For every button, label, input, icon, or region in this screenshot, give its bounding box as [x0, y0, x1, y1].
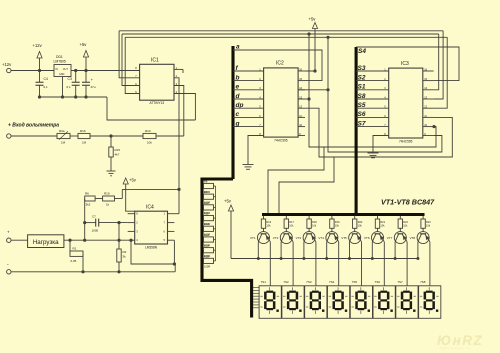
svg-text:LM358N: LM358N [145, 246, 158, 250]
svg-text:1000: 1000 [92, 229, 99, 233]
ground R15 [107, 170, 116, 172]
bus segment corner thick [202, 179, 252, 318]
wire DD1 ground lead [62, 77, 64, 98]
svg-text:VT2: VT2 [273, 236, 279, 240]
wire VT3 collector to display [315, 242, 317, 286]
resistor R18 10k base [308, 216, 310, 219]
wire clock drop long vertical to IC3 nest [307, 32, 310, 35]
wire VT6 collector to display [383, 242, 385, 286]
svg-text:+5v: +5v [309, 17, 317, 22]
svg-text:0,05: 0,05 [71, 259, 77, 263]
svg-text:IC2: IC2 [276, 61, 284, 67]
wire load output line to IC4 [64, 239, 128, 241]
wire VT8 collector to display [429, 242, 431, 286]
svg-text:7S6: 7S6 [375, 280, 381, 284]
display 7S8 seven-segment [419, 286, 441, 319]
svg-text:R21: R21 [381, 221, 386, 224]
resistor R13 100R segment [204, 237, 214, 242]
svg-text:3k3: 3k3 [86, 203, 91, 207]
power +12v symbol [39, 58, 41, 71]
resistor R14 100R segment [204, 248, 214, 253]
svg-text:R3a: R3a [59, 129, 65, 133]
svg-text:1M: 1M [82, 141, 87, 145]
wire segment b to IC2 [233, 80, 264, 82]
wire bottom line riser [174, 264, 176, 272]
resistor R9 100R segment [204, 194, 214, 199]
svg-text:VT4: VT4 [318, 236, 324, 240]
svg-text:47u: 47u [91, 85, 96, 89]
resistor R6 3k3 feedback [85, 196, 95, 201]
transistor VT3 [303, 232, 315, 244]
svg-text:dp: dp [236, 102, 244, 109]
resistor R12 100R segment [204, 226, 214, 231]
svg-text:7S5: 7S5 [352, 280, 358, 284]
resistor R20 10k base [354, 216, 356, 219]
svg-text:IC4: IC4 [146, 205, 154, 211]
wire IC1 pin5 to top line 3 [125, 37, 139, 93]
wire op-amp output cross link [177, 188, 180, 191]
svg-text:+12v: +12v [33, 43, 43, 48]
wire IC4 output pin link [174, 213, 179, 215]
wire IC1 pin7 to top line 1 [119, 31, 140, 78]
resistor R19 1k feedback [103, 196, 115, 201]
svg-text:7S8: 7S8 [420, 280, 426, 284]
resistor R23 10k base [422, 216, 424, 219]
wire VT2 emitter to rail [280, 242, 282, 259]
wire feedback line [95, 198, 103, 200]
svg-text:S5: S5 [358, 102, 366, 109]
IC4 pin stubs and numbers [128, 213, 135, 215]
svg-text:4k7: 4k7 [115, 153, 120, 157]
transistor VT6 [372, 232, 384, 244]
shift register IC2 74HC595 box [264, 68, 299, 137]
svg-text:R19: R19 [335, 221, 340, 224]
IC2 right pin stubs [298, 70, 305, 72]
op-amp IC1 ATtiny13 box [140, 64, 174, 100]
resistor R2 3k [118, 223, 120, 249]
resistor R10 10k [143, 133, 156, 138]
svg-text:+ Вход вольтметра: + Вход вольтметра [8, 123, 59, 129]
wire segment ladder right join [215, 186, 217, 261]
wire voltmeter input line [11, 135, 57, 137]
resistor R10 100R segment [204, 205, 214, 210]
display 7S3 seven-segment [305, 286, 327, 319]
svg-text:S4: S4 [358, 48, 366, 55]
svg-text:ATTINY13: ATTINY13 [149, 101, 164, 105]
transistor VT1 [258, 232, 270, 244]
wire bottom common line [11, 271, 175, 273]
wire segment e to IC2 [233, 89, 264, 91]
ground IC2 [243, 164, 254, 166]
wire top line1 down to IC3 pin13 [434, 31, 444, 99]
svg-text:R14: R14 [204, 244, 209, 248]
wire segment dp to IC2 [233, 107, 264, 109]
wire VT6 emitter to rail [371, 242, 373, 259]
svg-text:R19: R19 [104, 192, 110, 196]
svg-text:R6: R6 [85, 192, 89, 196]
resistor R11 100R segment [204, 216, 214, 221]
svg-text:Нагрузка: Нагрузка [33, 239, 59, 246]
shift register IC3 74HC595 box [389, 68, 423, 138]
svg-text:7S3: 7S3 [306, 280, 312, 284]
svg-text:R9: R9 [204, 190, 208, 194]
display 7S2 seven-segment [282, 286, 304, 319]
terminal load plus [7, 238, 11, 242]
wire IC1 pin1 stub [174, 68, 183, 70]
svg-text:R17: R17 [289, 221, 294, 224]
svg-text:R23: R23 [426, 221, 431, 224]
svg-text:e: e [236, 84, 240, 91]
svg-text:S6: S6 [358, 111, 366, 118]
display 7S1 seven-segment [259, 286, 281, 319]
display 7S5 seven-segment [350, 286, 372, 319]
resistor R17 10k base [285, 216, 287, 219]
wire segment d to IC2 [233, 98, 264, 100]
trimmer R3a [57, 133, 70, 138]
wire segment a loop to IC2 pin15 [233, 50, 322, 81]
wire digit S5 to IC3 [356, 107, 389, 109]
capacitor C4 [39, 71, 41, 83]
svg-text:OUT: OUT [63, 68, 69, 71]
svg-text:IC1: IC1 [151, 58, 159, 64]
wire IC4 feedback loop bottom [131, 240, 174, 264]
svg-text:VT6: VT6 [364, 236, 370, 240]
capacitor C7 1000p [85, 222, 96, 224]
wire segment g to IC2 [233, 126, 264, 128]
svg-text:a: a [236, 44, 240, 51]
resistor R15 4k7 [110, 136, 112, 147]
svg-text:1k: 1k [106, 203, 110, 207]
transistor VT4 [326, 232, 338, 244]
svg-text:R16: R16 [267, 221, 272, 224]
svg-text:R12: R12 [204, 222, 209, 226]
svg-text:VT1: VT1 [250, 236, 256, 240]
svg-text:c: c [236, 111, 240, 118]
bus segment lines thick [231, 46, 234, 179]
svg-text:+: + [7, 230, 10, 235]
wire enable drop to transistor rail [279, 157, 334, 215]
svg-text:10k: 10k [147, 141, 152, 145]
svg-text:b: b [236, 74, 240, 81]
svg-text:7S4: 7S4 [329, 280, 335, 284]
node R15 tap [109, 134, 112, 137]
svg-text:0,1: 0,1 [44, 85, 49, 89]
bus digit select thick [355, 47, 358, 215]
svg-text:VT7: VT7 [387, 236, 393, 240]
svg-text:R15: R15 [115, 148, 121, 152]
svg-text:C3: C3 [68, 77, 72, 81]
wire top line2 down to IC3 pin14 [434, 34, 439, 90]
ground rail of power section [40, 96, 108, 98]
terminal voltmeter input [7, 134, 11, 138]
svg-text:R10: R10 [145, 129, 151, 133]
wire IC2 pin8 to ground [248, 136, 264, 165]
resistor R19 10k base [331, 216, 333, 219]
wire ground rail corner down [107, 97, 195, 120]
wire VT3 emitter to rail [303, 242, 305, 259]
wire top line3 down to IC3 pin12 [434, 37, 448, 108]
wire digit S7 to IC3 [356, 126, 389, 128]
svg-text:+5v: +5v [224, 199, 232, 204]
load box Нагрузка [28, 235, 64, 248]
svg-text:7S7: 7S7 [397, 280, 403, 284]
svg-text:R18: R18 [312, 221, 317, 224]
wire IC1 pin6 to top line 2 [122, 34, 140, 86]
svg-text:R11: R11 [204, 212, 209, 216]
svg-text:7S2: 7S2 [283, 280, 289, 284]
svg-text:R8: R8 [204, 179, 208, 183]
transistor VT7 [394, 232, 406, 244]
IC3 right pin stubs [423, 70, 434, 72]
svg-text:g: g [235, 120, 240, 127]
wire top line 3 (IC1 pin5 data) [125, 36, 447, 38]
svg-text:0,1: 0,1 [67, 85, 72, 89]
wire segment f to IC2 [233, 70, 264, 72]
terminal load minus [7, 270, 11, 274]
svg-text:IN: IN [56, 68, 59, 71]
wire feedback left branch down [84, 199, 86, 241]
display 7S7 seven-segment [396, 286, 418, 319]
svg-text:R2: R2 [123, 250, 127, 254]
wire +5v to IC4 supply [126, 184, 135, 211]
svg-text:IC3: IC3 [401, 61, 409, 67]
resistor R22 10k base [399, 216, 401, 219]
wire VT2 collector to display [292, 242, 294, 286]
svg-text:C4: C4 [44, 77, 48, 81]
svg-text:R22: R22 [403, 221, 408, 224]
wire load plus [11, 239, 28, 241]
svg-text:R10: R10 [204, 201, 209, 205]
svg-text:VT8: VT8 [410, 236, 416, 240]
wire digit S3 to IC3 [356, 70, 389, 72]
wire +5v to IC2 pin16 [305, 29, 315, 72]
wire S4 loop to IC3 pin15 [356, 47, 459, 81]
svg-text:VT1-VT8 BC847: VT1-VT8 BC847 [381, 198, 435, 207]
svg-text:R13: R13 [204, 233, 209, 237]
wire IC1 pin3 to voltmeter divider [174, 86, 184, 137]
svg-text:DD1: DD1 [56, 55, 63, 59]
node junction C5 [84, 69, 87, 72]
wire segment c to IC2 [233, 116, 264, 118]
wire top line 1 (IC1 pin7 to IC3) [119, 30, 443, 32]
svg-text:3k: 3k [123, 255, 127, 259]
svg-text:+5v: +5v [129, 178, 137, 183]
wire IC1 pin2 to op-amp output [174, 78, 179, 214]
regulator DD1 LM7805 [54, 65, 71, 77]
svg-text:S2: S2 [358, 74, 366, 81]
terminal X1 +12v input [7, 68, 11, 72]
svg-text:S1: S1 [358, 84, 366, 91]
svg-text:S8: S8 [358, 93, 366, 100]
wire VT7 emitter to rail [394, 242, 396, 259]
display 7S4 seven-segment [327, 286, 349, 319]
svg-text:S7: S7 [358, 120, 366, 127]
capacitor C5 [85, 71, 87, 83]
resistor R8 100R segment [204, 183, 214, 188]
resistor R16 10k base [263, 216, 265, 219]
op-amp IC4 LM358N box [135, 211, 168, 244]
wire data drop long vertical to IC3 nest [326, 36, 329, 39]
svg-text:C7: C7 [92, 215, 96, 219]
wire VT7 collector to display [406, 242, 408, 286]
svg-text:GND: GND [59, 73, 65, 76]
wire VT4 emitter to rail [326, 242, 328, 259]
wire +5v emitter rail [230, 211, 232, 259]
svg-text:R16: R16 [80, 129, 86, 133]
svg-text:+12v: +12v [2, 62, 12, 67]
display 7S6 seven-segment [373, 286, 395, 319]
capacitor C3 [75, 71, 77, 83]
svg-text:R20: R20 [358, 221, 363, 224]
transistor VT2 [280, 232, 292, 244]
svg-text:R15: R15 [204, 254, 209, 258]
svg-text:r a d i o l u b i t e l . r u: r a d i o l u b i t e l . r u [440, 346, 470, 350]
wire digit S8 to IC3 [356, 98, 389, 100]
svg-text:VT5: VT5 [341, 236, 347, 240]
svg-text:LM7805: LM7805 [54, 60, 66, 64]
wire digit S6 to IC3 [356, 116, 389, 118]
svg-text:VT3: VT3 [296, 236, 302, 240]
resistor R15 100R segment [204, 258, 214, 263]
wire VT4 collector to display [338, 242, 340, 286]
wire IC1 pin4 to ground line [174, 94, 195, 121]
wire digit S1 to IC3 [356, 89, 389, 91]
wire digit S2 to IC3 [356, 80, 389, 82]
svg-text:74HC595: 74HC595 [274, 139, 288, 143]
resistor R16 1M [78, 133, 90, 138]
resistor R21 10k base [377, 216, 379, 219]
wire top line 2 (IC1 pin6 clock) [122, 33, 439, 35]
svg-text:1M: 1M [61, 141, 66, 145]
wire +12v input to regulator and IC1 pin8 [11, 70, 140, 72]
wire IC3 pin8 to ground [373, 136, 389, 154]
wire display bus fanout ticks [253, 287, 259, 289]
wire latch drop to transistor rail left [268, 147, 324, 215]
svg-text:7S1: 7S1 [261, 280, 267, 284]
wire VT8 emitter to rail [417, 242, 419, 259]
svg-text:74HC595: 74HC595 [399, 140, 413, 144]
wire IC2 pin12 to IC3 pin11 [305, 108, 452, 157]
svg-text:S3: S3 [358, 65, 366, 72]
node junction C3 [74, 69, 77, 72]
svg-text:+5v: +5v [80, 42, 88, 47]
node junction C4 [38, 69, 41, 72]
svg-text:R1: R1 [73, 247, 77, 251]
svg-text:100R: 100R [204, 265, 210, 269]
wire VT5 collector to display [361, 242, 363, 286]
transistor VT8 [417, 232, 429, 244]
power +5v symbol at regulator output [85, 57, 87, 71]
shunt resistor R1 0.05 [69, 240, 71, 254]
wire VT5 emitter to rail [349, 242, 351, 259]
wire VT1 collector to display [269, 242, 271, 286]
transistor VT5 [349, 232, 361, 244]
ground IC3 [368, 152, 379, 154]
bus base rail thick [262, 213, 425, 216]
wire VT1 emitter to rail [257, 242, 259, 259]
